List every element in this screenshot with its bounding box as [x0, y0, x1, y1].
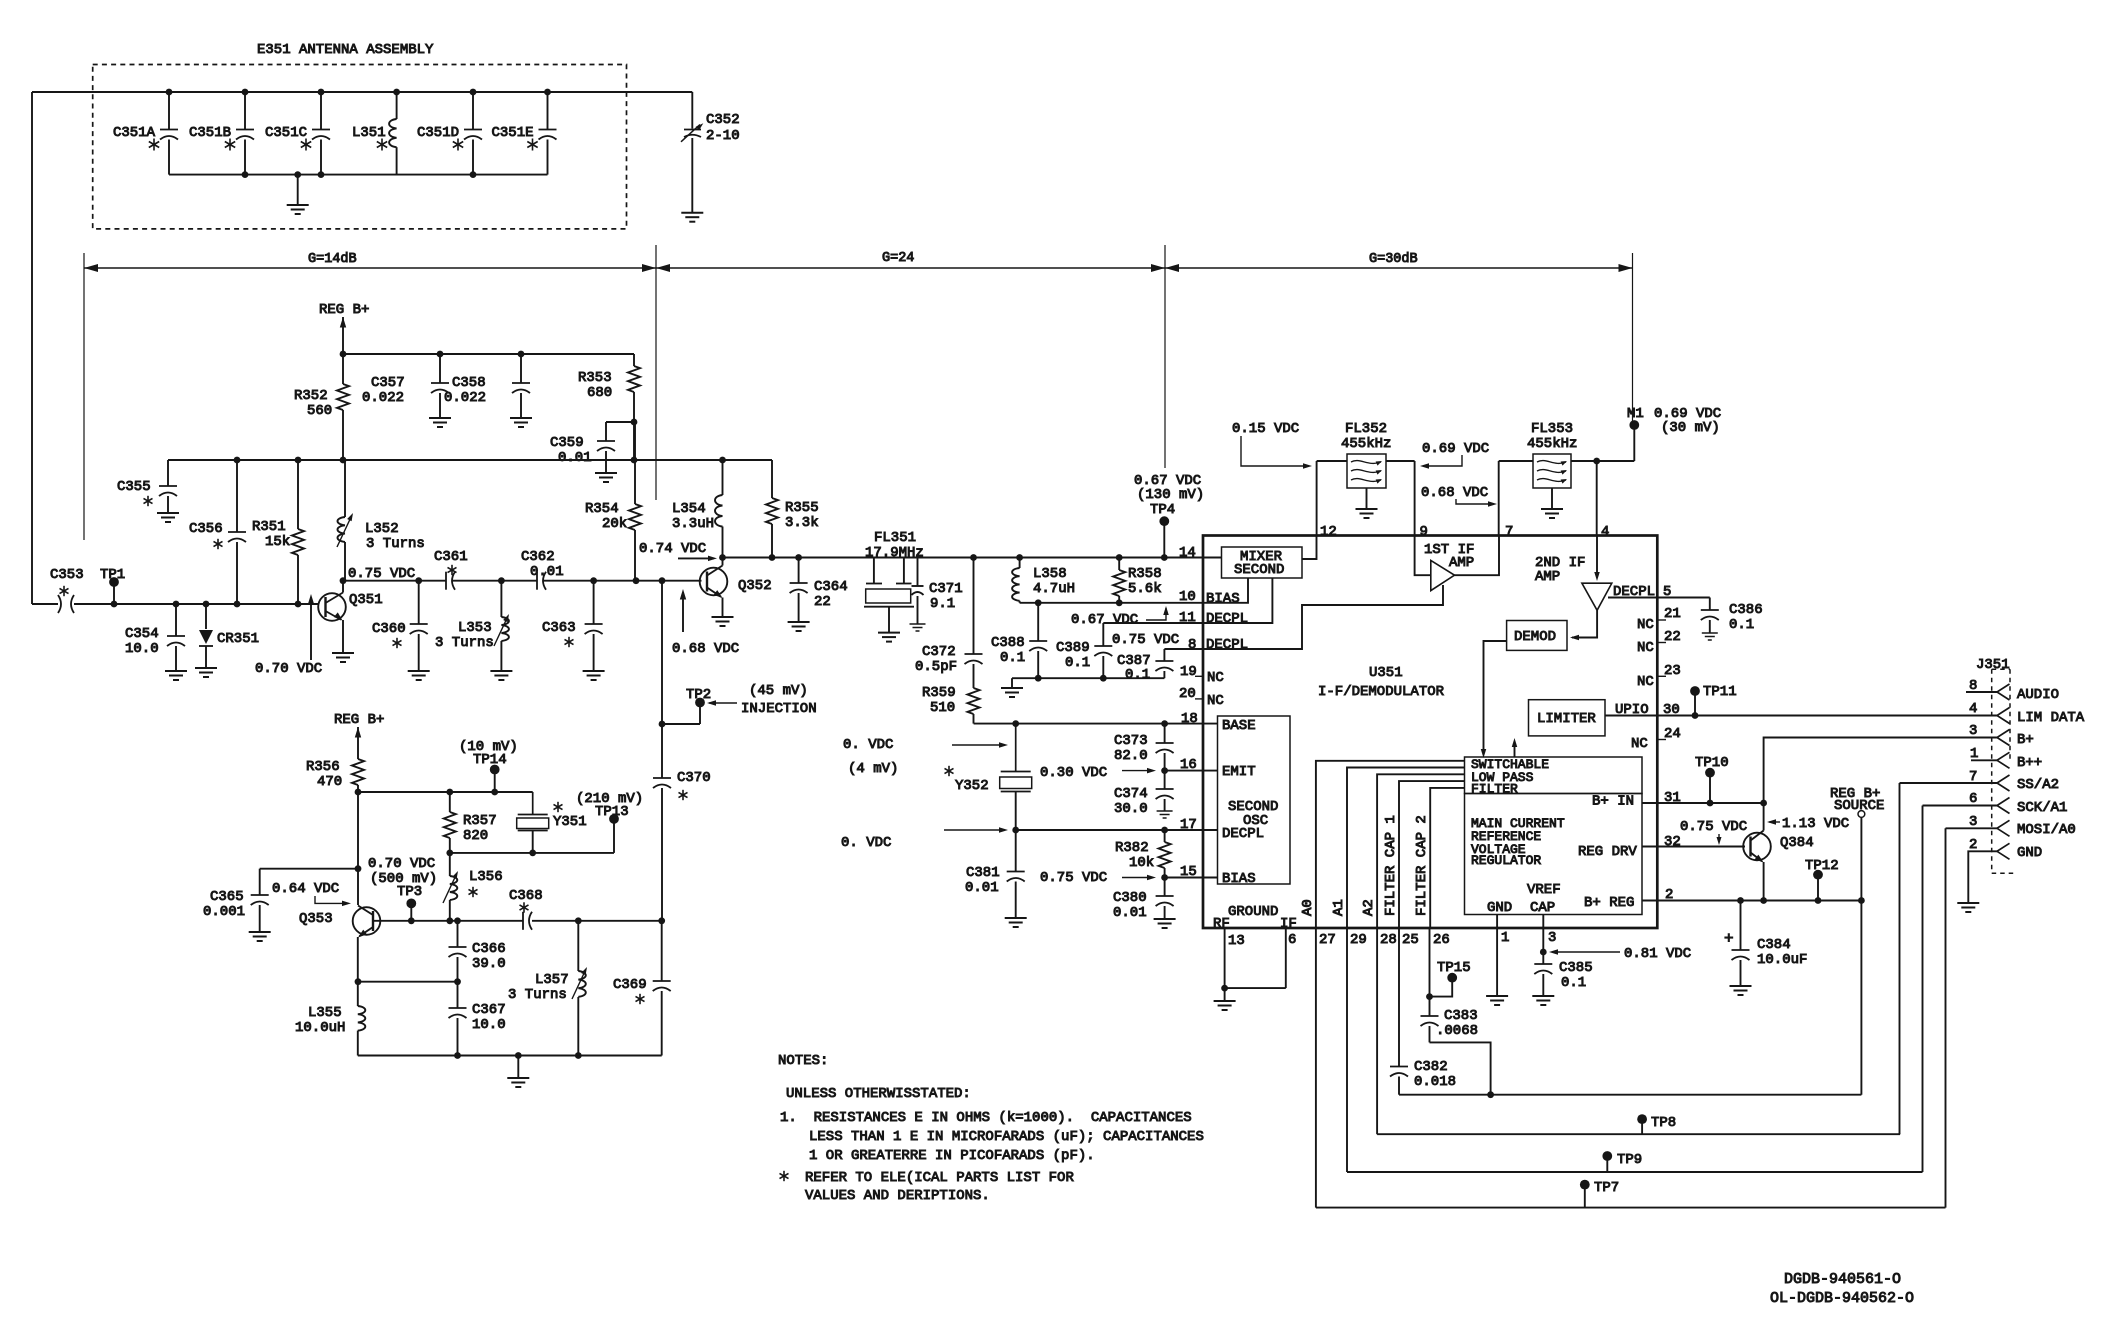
capacitor C353	[32, 567, 319, 613]
wire bus TP9	[1347, 1171, 1923, 1173]
svg-text:22: 22	[1664, 629, 1681, 645]
svg-text:GROUND: GROUND	[1228, 904, 1278, 920]
capacitor C367	[449, 982, 506, 1056]
svg-text:C385: C385	[1559, 960, 1593, 976]
svg-text:C372: C372	[922, 644, 956, 660]
capacitor C384	[1724, 901, 1807, 987]
ground C363	[583, 671, 605, 680]
svg-text:R355: R355	[785, 500, 819, 516]
transistor Q384	[1743, 803, 1813, 901]
svg-text:R358: R358	[1128, 566, 1162, 582]
wire pin25 drop	[1398, 928, 1400, 1067]
svg-text:NC: NC	[1637, 617, 1654, 633]
capacitor C356	[189, 460, 246, 604]
pin 12 internal	[1302, 536, 1317, 559]
svg-text:C359: C359	[550, 435, 584, 451]
ground C380	[1154, 919, 1176, 928]
crystal Y352	[944, 724, 1031, 830]
svg-text:GND: GND	[2017, 845, 2042, 861]
svg-text:C386: C386	[1729, 602, 1763, 618]
inductor L356	[443, 853, 503, 921]
wire bus TP8	[1377, 1133, 1900, 1134]
filter FL352	[1317, 421, 1415, 536]
svg-text:MOSI/A0: MOSI/A0	[2017, 822, 2076, 838]
note 1 line 1	[780, 1110, 1192, 1126]
svg-text:NC: NC	[1637, 674, 1654, 690]
svg-text:19: 19	[1180, 664, 1197, 680]
wire 0.75VDC base rail	[340, 577, 702, 584]
pin 12 number	[1320, 524, 1337, 540]
filter FL353	[1499, 421, 1635, 536]
svg-text:C368: C368	[509, 888, 543, 904]
ground antenna	[287, 171, 309, 214]
svg-text:Q384: Q384	[1780, 835, 1814, 851]
J351 pin 4 LIM DATA	[1969, 701, 2085, 726]
svg-text:EMIT: EMIT	[1222, 764, 1256, 780]
pin numbers bottom	[1228, 930, 1556, 949]
svg-text:10k: 10k	[1129, 855, 1154, 871]
testpoint TP9	[1602, 1151, 1642, 1172]
pin 25 internal FILTER CAP 1	[1383, 781, 1465, 928]
svg-text:24: 24	[1664, 726, 1681, 742]
svg-text:5: 5	[1663, 584, 1671, 600]
ground C384	[1730, 986, 1752, 995]
NC pin 24	[1631, 726, 1681, 752]
ground C360	[408, 671, 430, 680]
svg-text:31: 31	[1664, 790, 1681, 806]
svg-text:0.01: 0.01	[530, 564, 564, 580]
ground C358	[510, 418, 532, 427]
label 0 VDC Y352	[843, 737, 1008, 777]
svg-text:REGULATOR: REGULATOR	[1471, 853, 1541, 868]
wire bias rail y460	[168, 457, 772, 464]
svg-text:82.0: 82.0	[1114, 748, 1148, 764]
capacitor C374	[1114, 771, 1174, 817]
svg-text:7: 7	[1505, 524, 1513, 540]
LPF block	[1465, 757, 1643, 797]
pin 27 internal A0	[1300, 761, 1465, 928]
svg-text:0.75 VDC: 0.75 VDC	[1112, 632, 1179, 648]
wire MOSI/A0 drop	[1945, 828, 1947, 1207]
ground C381	[1005, 918, 1027, 927]
pin 3 VREF internal	[1542, 915, 1544, 929]
REG B+ supply 2	[334, 712, 384, 759]
svg-text:LESS THAN 1 E IN MICROFARADS (: LESS THAN 1 E IN MICROFARADS (uF); CAPAC…	[809, 1129, 1204, 1145]
svg-text:0.1: 0.1	[1000, 650, 1025, 666]
ground FL351	[878, 633, 900, 642]
label 0.64 VDC	[272, 881, 351, 906]
svg-text:C364: C364	[814, 579, 848, 595]
svg-text:3.3k: 3.3k	[785, 515, 819, 531]
svg-text:2: 2	[1665, 887, 1673, 903]
ground C357	[429, 418, 451, 427]
capacitor C351C	[265, 89, 330, 175]
svg-text:3 Turns: 3 Turns	[435, 635, 494, 651]
svg-text:DECPL: DECPL	[1206, 611, 1248, 627]
ground FL352	[1356, 509, 1378, 518]
second osc block	[1218, 716, 1291, 887]
svg-text:BIAS: BIAS	[1222, 871, 1256, 887]
svg-text:14: 14	[1179, 545, 1196, 561]
svg-text:UNLESS OTHERWISSTATED:: UNLESS OTHERWISSTATED:	[786, 1086, 971, 1102]
svg-text:10.0uH: 10.0uH	[295, 1020, 345, 1036]
wire bottom antenna bus	[169, 171, 548, 178]
svg-text:0.68 VDC: 0.68 VDC	[1421, 485, 1488, 501]
capacitor C365	[203, 865, 361, 932]
svg-text:10.0: 10.0	[472, 1017, 506, 1033]
svg-text:0.1: 0.1	[1065, 655, 1090, 671]
wire bus C382 net	[1399, 1094, 1861, 1096]
svg-text:FL351: FL351	[874, 530, 916, 546]
NC pin 21	[1637, 606, 1681, 633]
svg-text:C352: C352	[706, 112, 740, 128]
svg-text:LIMITER: LIMITER	[1537, 711, 1596, 727]
capacitor C366	[449, 921, 506, 982]
node R353/C359	[631, 419, 638, 426]
mixer block	[1222, 547, 1303, 578]
svg-text:6: 6	[1288, 932, 1296, 948]
pin 9 internal	[1415, 536, 1431, 575]
svg-text:C351C: C351C	[265, 125, 307, 141]
svg-text:.0068: .0068	[1436, 1023, 1478, 1039]
NC pin 22	[1637, 629, 1681, 656]
capacitor C351D	[417, 89, 482, 175]
J351 pin 2 GND	[1968, 837, 2042, 903]
svg-text:0.022: 0.022	[444, 390, 486, 406]
svg-text:0.001: 0.001	[203, 904, 245, 920]
svg-text:L351: L351	[352, 125, 386, 141]
svg-text:B++: B++	[2017, 755, 2042, 771]
capacitor C364	[790, 558, 848, 623]
svg-text:0.30 VDC: 0.30 VDC	[1040, 765, 1107, 781]
svg-text:R354: R354	[585, 501, 619, 517]
wire pin27 drop	[1315, 928, 1317, 1208]
label 0.15 VDC	[1232, 421, 1312, 469]
pin 7 number	[1505, 524, 1513, 540]
svg-text:FILTER CAP 2: FILTER CAP 2	[1414, 815, 1430, 916]
svg-text:(30 mV): (30 mV)	[1661, 420, 1720, 436]
regulator block	[1465, 794, 1643, 917]
svg-text:AUDIO: AUDIO	[2017, 687, 2059, 703]
resistor R354	[585, 422, 641, 581]
svg-text:C354: C354	[125, 626, 159, 642]
capacitor C373	[1114, 724, 1174, 771]
wire UPIO pin30 rail	[1615, 702, 1997, 719]
wire pin18 BASE rail	[974, 711, 1218, 727]
capacitor C380	[1113, 878, 1174, 922]
inductor L352	[337, 460, 425, 581]
demod feed	[1570, 610, 1597, 640]
svg-text:1 OR GREATERRE IN PICOFARADS (: 1 OR GREATERRE IN PICOFARADS (pF).	[809, 1148, 1095, 1164]
svg-text:0. VDC: 0. VDC	[843, 737, 893, 753]
svg-text:UPIO: UPIO	[1615, 702, 1649, 718]
pin 28 internal A2	[1361, 774, 1465, 928]
svg-text:(4 mV): (4 mV)	[848, 761, 898, 777]
testpoint TP15	[1426, 960, 1471, 1000]
wire pin29 drop	[1346, 928, 1348, 1172]
label 0.67 VDC pin10	[1071, 606, 1169, 628]
svg-text:0.022: 0.022	[362, 390, 404, 406]
capacitor C381	[965, 830, 1025, 918]
svg-text:820: 820	[463, 828, 488, 844]
ground C365	[249, 932, 271, 941]
svg-text:INJECTION: INJECTION	[741, 701, 817, 717]
capacitor C362 series	[521, 549, 564, 590]
J351 pin 3 MOSI/A0	[1946, 814, 2076, 838]
svg-text:R352: R352	[294, 388, 328, 404]
antenna assembly dashed box	[93, 65, 627, 229]
svg-text:9.1: 9.1	[930, 596, 955, 612]
svg-text:RF: RF	[1213, 916, 1230, 932]
wire emitter link	[355, 978, 461, 985]
J351 pin 7 SS/A2	[1900, 769, 2060, 793]
svg-text:C357: C357	[371, 375, 405, 391]
svg-text:L355: L355	[308, 1005, 342, 1021]
svg-text:A1: A1	[1331, 899, 1347, 916]
dimension line G=14dB	[84, 252, 656, 272]
svg-text:LIM DATA: LIM DATA	[2017, 710, 2085, 726]
svg-text:BASE: BASE	[1222, 718, 1256, 734]
svg-text:3 Turns: 3 Turns	[508, 987, 567, 1003]
svg-text:4: 4	[1601, 524, 1609, 540]
wire pin16 EMIT rail	[1040, 757, 1218, 781]
svg-text:(130 mV): (130 mV)	[1137, 487, 1204, 503]
wire decoupling bus	[1012, 675, 1164, 688]
svg-text:Y351: Y351	[553, 814, 587, 830]
inductor L355	[295, 937, 365, 1056]
svg-text:0.01: 0.01	[965, 880, 999, 896]
svg-text:DECPL: DECPL	[1206, 637, 1248, 653]
svg-text:3 Turns: 3 Turns	[366, 536, 425, 552]
capacitor C369	[613, 921, 671, 1056]
ground C359	[595, 473, 617, 482]
wire pin1 ground	[1496, 928, 1498, 996]
wire pin13 RF ground	[1224, 928, 1226, 988]
capacitor C361 series	[434, 549, 468, 590]
svg-text:C373: C373	[1114, 733, 1148, 749]
svg-text:10.0: 10.0	[125, 641, 159, 657]
pin 4 internal	[1594, 536, 1600, 581]
svg-text:0.15 VDC: 0.15 VDC	[1232, 421, 1299, 437]
pin 10 internal	[1203, 578, 1248, 607]
svg-text:0.75 VDC: 0.75 VDC	[348, 566, 415, 582]
svg-text:25: 25	[1402, 932, 1419, 948]
dimension tick G14/G24	[655, 245, 657, 500]
svg-text:L352: L352	[365, 521, 399, 537]
ground CR351	[195, 668, 217, 677]
svg-text:VALUES AND DERIPTIONS.: VALUES AND DERIPTIONS.	[805, 1188, 990, 1204]
svg-text:L353: L353	[458, 620, 492, 636]
svg-text:TP8: TP8	[1651, 1115, 1676, 1131]
dimension line G=24	[656, 251, 1165, 272]
svg-text:29: 29	[1350, 932, 1367, 948]
svg-text:1: 1	[1501, 930, 1509, 946]
svg-text:1. RESISTANCES E IN OHMS (k=1: 1. RESISTANCES E IN OHMS (k=1000). CAPAC…	[780, 1110, 1192, 1126]
svg-text:C388: C388	[991, 635, 1025, 651]
svg-text:TP12: TP12	[1805, 858, 1839, 874]
svg-text:R382: R382	[1115, 840, 1149, 856]
ground pin1	[1486, 996, 1508, 1005]
note 1 line 2	[809, 1129, 1204, 1145]
pin 19 NC	[1180, 664, 1224, 686]
pin 9 number	[1420, 524, 1428, 540]
svg-text:AMP: AMP	[1535, 569, 1560, 585]
capacitor C370	[653, 581, 711, 921]
svg-text:0.1: 0.1	[1561, 975, 1586, 991]
svg-text:22: 22	[814, 594, 831, 610]
capacitor C351E	[492, 89, 557, 175]
pin 4 number	[1601, 524, 1609, 540]
label 0.68 VDC mid	[1421, 485, 1497, 507]
svg-text:VREF: VREF	[1527, 882, 1561, 898]
svg-text:455kHz: 455kHz	[1341, 436, 1391, 452]
wire left antenna drop	[31, 92, 33, 604]
dimension tick left	[83, 253, 85, 540]
transistor Q351	[234, 581, 383, 653]
testpoint TP14	[459, 739, 518, 792]
svg-text:560: 560	[307, 403, 332, 419]
note asterisk line 2	[805, 1188, 990, 1204]
wire SS/A2 drop	[1899, 783, 1901, 1134]
REG B+ SOURCE	[1830, 786, 1884, 901]
svg-text:C351E: C351E	[492, 125, 534, 141]
ground C355	[157, 513, 179, 522]
svg-text:L357: L357	[535, 972, 569, 988]
svg-text:18: 18	[1181, 711, 1198, 727]
svg-text:C355: C355	[117, 479, 151, 495]
wire pin26 drop	[1429, 928, 1431, 1016]
svg-text:C369: C369	[613, 977, 647, 993]
svg-text:IF: IF	[1280, 916, 1297, 932]
notes unless	[786, 1086, 971, 1102]
svg-text:C389: C389	[1056, 640, 1090, 656]
svg-text:510: 510	[930, 700, 955, 716]
svg-text:0.1: 0.1	[1125, 667, 1150, 683]
svg-text:REFER TO ELE(ICAL PARTS LIST F: REFER TO ELE(ICAL PARTS LIST FOR	[805, 1170, 1074, 1186]
inductor L357	[508, 921, 587, 1056]
svg-text:0.75 VDC: 0.75 VDC	[1040, 870, 1107, 886]
capacitor C355	[117, 460, 177, 513]
transistor Q352	[700, 558, 772, 618]
svg-text:1: 1	[1970, 746, 1978, 762]
svg-text:C360: C360	[372, 621, 406, 637]
svg-text:0.64 VDC: 0.64 VDC	[272, 881, 339, 897]
pin 20 NC	[1179, 686, 1224, 709]
svg-text:C365: C365	[210, 889, 244, 905]
svg-text:20k: 20k	[602, 516, 627, 532]
dimension tick right / M1 drop	[1632, 253, 1634, 424]
svg-text:4: 4	[1969, 701, 1977, 717]
svg-text:0.74 VDC: 0.74 VDC	[639, 541, 706, 557]
capacitor C371	[912, 558, 963, 625]
resistor R351	[252, 460, 304, 604]
capacitor C351B	[189, 89, 254, 175]
ground L353	[490, 671, 512, 680]
svg-text:0.70 VDC: 0.70 VDC	[255, 661, 322, 677]
capacitor C372	[915, 558, 983, 689]
svg-text:20: 20	[1179, 686, 1196, 702]
inductor L358	[1012, 558, 1075, 603]
ground C385	[1532, 996, 1554, 1005]
dimension line G=30dB	[1165, 252, 1633, 272]
crystal Y351	[517, 792, 587, 853]
pin 26 internal FILTER CAP 2	[1414, 788, 1465, 928]
ground C374	[1157, 811, 1173, 818]
svg-text:TP11: TP11	[1703, 684, 1737, 700]
capacitor C358	[444, 354, 530, 418]
svg-text:0.01: 0.01	[558, 450, 592, 466]
ground RF/IF	[1214, 988, 1236, 1010]
svg-text:1.13 VDC: 1.13 VDC	[1782, 816, 1849, 832]
svg-text:5.6k: 5.6k	[1128, 581, 1162, 597]
label 1.13 VDC	[1767, 816, 1849, 832]
wire collector rail 0.74V	[719, 554, 1203, 561]
J351 pin 1 B++	[1970, 746, 2042, 771]
svg-text:REG DRV: REG DRV	[1578, 844, 1637, 860]
ground C352	[681, 213, 703, 222]
svg-text:NOTES:: NOTES:	[778, 1053, 828, 1069]
svg-text:B+ REG: B+ REG	[1584, 895, 1634, 911]
svg-text:C351A: C351A	[113, 125, 156, 141]
J351 pin 8 AUDIO	[1966, 678, 2059, 703]
capacitor C382	[1390, 1059, 1456, 1095]
label 0.69 VDC mid	[1420, 441, 1489, 469]
svg-text:(500 mV): (500 mV)	[370, 871, 437, 887]
capacitor C352 variable	[681, 92, 740, 213]
wire SCK/A1 drop	[1922, 806, 1924, 1173]
svg-text:NC: NC	[1637, 640, 1654, 656]
wire Q353 base rail	[373, 917, 666, 924]
svg-text:9: 9	[1420, 524, 1428, 540]
IC U351 name	[1318, 665, 1445, 700]
svg-text:30: 30	[1663, 702, 1680, 718]
capacitor C385	[1534, 960, 1592, 996]
ground Q352 emitter	[712, 617, 734, 626]
svg-text:3: 3	[1548, 930, 1556, 946]
label 0.70 VDC Q351	[255, 594, 322, 677]
svg-text:CAP: CAP	[1530, 900, 1555, 916]
svg-text:+: +	[1724, 930, 1734, 948]
svg-text:B+: B+	[2017, 732, 2034, 748]
svg-text:OL-DGDB-940562-O: OL-DGDB-940562-O	[1770, 1290, 1914, 1307]
demod to LPF	[1481, 641, 1507, 758]
limiter input	[1512, 738, 1518, 757]
ground C386	[1702, 633, 1718, 640]
svg-text:Q353: Q353	[299, 911, 333, 927]
inductor L351	[352, 89, 400, 175]
ground C371	[910, 624, 926, 631]
ground Q351 emitter	[332, 653, 354, 662]
svg-text:30.0: 30.0	[1114, 801, 1148, 817]
svg-text:A0: A0	[1300, 899, 1316, 916]
testpoint TP10	[1695, 755, 1729, 803]
svg-text:CR351: CR351	[217, 631, 259, 647]
wire pin32 rail	[1642, 834, 1745, 850]
pin 29 internal A1	[1331, 768, 1465, 929]
svg-text:L358: L358	[1033, 566, 1067, 582]
resistor R382	[1115, 830, 1171, 878]
svg-text:2-10: 2-10	[706, 128, 740, 144]
svg-text:FL353: FL353	[1531, 421, 1573, 437]
svg-text:C381: C381	[966, 865, 1000, 881]
svg-text:0.68 VDC: 0.68 VDC	[672, 641, 739, 657]
wire pin3 vref cap	[1542, 928, 1544, 964]
capacitor C351A	[113, 89, 178, 175]
svg-text:4.7uH: 4.7uH	[1033, 581, 1075, 597]
svg-text:10.0uF: 10.0uF	[1757, 952, 1807, 968]
J351 pin 6 SCK/A1	[1923, 791, 2068, 816]
svg-text:C356: C356	[189, 521, 223, 537]
